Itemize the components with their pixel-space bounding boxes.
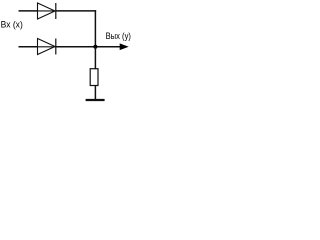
wire output [96,46,122,48]
wire bottom input [19,46,38,48]
diode D1 [38,3,56,19]
wire resistor to ground [94,85,96,100]
svg-text:Вх (x): Вх (x) [1,20,23,30]
ground [86,99,105,101]
diode D2 [38,39,56,55]
svg-text:Вых (у): Вых (у) [106,31,131,41]
arrowhead output [120,43,129,50]
wire from D2 to junction [56,46,96,48]
wire top input [19,10,38,12]
junction dot [93,45,97,49]
resistor R [90,69,98,86]
wire junction to resistor [94,47,96,70]
wire vertical down from corner [94,10,96,47]
wire from D1 to corner [56,10,96,12]
